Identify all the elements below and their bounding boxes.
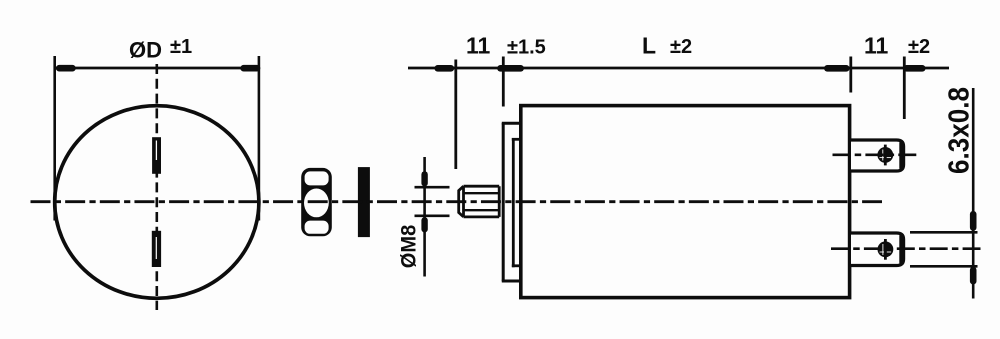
- dimension M8: arrow upper: [421, 174, 427, 183]
- dimension OD: arrow left: [59, 65, 72, 72]
- svg-text:11: 11: [864, 33, 889, 59]
- nut facet top: [305, 171, 329, 185]
- cover step vertical: [512, 138, 515, 267]
- dimension 6.3x0.8: arrow lower: [970, 270, 977, 281]
- svg-text:±2: ±2: [908, 36, 930, 58]
- end view can outline: [55, 106, 259, 299]
- terminal hole upper: [877, 147, 893, 163]
- svg-text:L: L: [642, 33, 656, 59]
- main horizontal centerline: [31, 200, 883, 203]
- cover face line: [502, 123, 505, 282]
- svg-text:±1.5: ±1.5: [507, 37, 546, 59]
- cover top edge: [502, 122, 521, 125]
- dimension OD: extension line right: [258, 56, 261, 221]
- extension line stud end: [454, 60, 457, 170]
- arrow at body face: [500, 65, 520, 72]
- arrow at body right: [827, 65, 846, 72]
- dimension M8: arrow lower: [421, 220, 427, 229]
- terminal centerline lower: [831, 247, 981, 250]
- cover bottom edge: [502, 280, 521, 283]
- terminal centerline upper: [833, 154, 918, 157]
- nut facet bottom: [305, 221, 329, 234]
- dimension 6.3x0.8: extension line upper: [910, 231, 978, 234]
- end view vertical centerline: [156, 64, 159, 310]
- washer: [358, 167, 370, 237]
- extension line body right: [849, 57, 852, 93]
- dimension M8: extension line lower: [415, 215, 450, 218]
- quick connect terminal lower: [851, 233, 904, 266]
- arrow at terminal end: [907, 65, 923, 72]
- svg-text:6.3x0.8: 6.3x0.8: [944, 87, 976, 174]
- svg-text:±2: ±2: [670, 36, 692, 58]
- top dimension line: [408, 67, 949, 70]
- svg-text:±1: ±1: [170, 36, 192, 58]
- quick connect terminal upper: [851, 140, 904, 171]
- cover step bottom edge: [512, 264, 521, 267]
- end view terminal upper: [152, 137, 161, 174]
- cover step top edge: [512, 138, 521, 141]
- svg-text:ØD: ØD: [129, 38, 162, 63]
- hex nut body: [301, 168, 332, 236]
- dimension 6.3x0.8: arrow upper: [970, 214, 977, 227]
- svg-text:11: 11: [466, 33, 491, 59]
- stud thread minor lines: [464, 192, 500, 194]
- dimension OD: arrow right: [244, 65, 257, 72]
- stud outline with chamfered end: [459, 186, 500, 217]
- terminal hole lower: [878, 241, 894, 257]
- dimension M8: dimension line: [423, 157, 426, 277]
- extension line body face: [502, 57, 505, 107]
- dimension OD: dimension line: [55, 67, 259, 70]
- svg-text:ØM8: ØM8: [397, 224, 420, 268]
- dimension OD: extension line left: [53, 56, 56, 221]
- dimension 6.3x0.8: dimension line: [972, 88, 975, 299]
- dimension M8: extension line upper: [415, 186, 450, 189]
- capacitor body side view: [521, 106, 850, 298]
- end view terminal lower: [152, 231, 161, 267]
- arrow at stud end: [438, 65, 451, 72]
- extension line terminal end: [903, 57, 906, 120]
- dimension 6.3x0.8: extension line lower: [910, 265, 978, 268]
- nut facet middle: [304, 189, 329, 218]
